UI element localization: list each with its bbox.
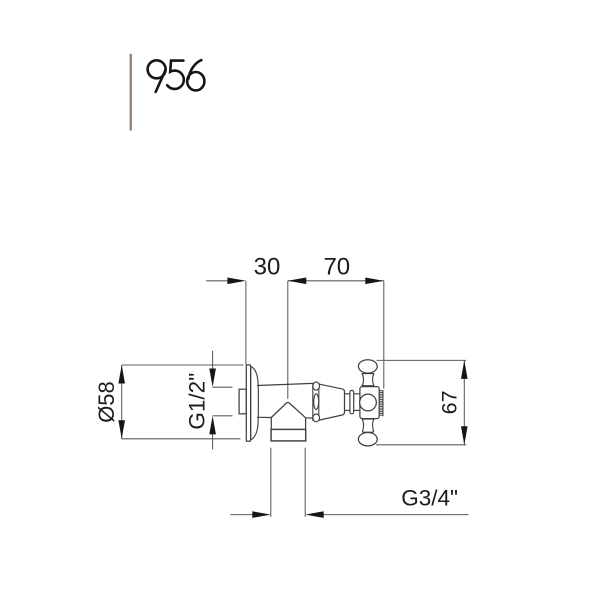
dim 70 extension line right	[383, 281, 385, 389]
neck 1	[345, 393, 350, 395]
ring bottom oval	[313, 414, 320, 422]
svg-text:70: 70	[323, 253, 350, 280]
body tube bottom edge left	[257, 416, 271, 418]
dim 67 extension lines	[377, 359, 467, 361]
handle bottom ball	[358, 433, 377, 446]
collar ring	[350, 390, 354, 414]
ring top oval	[313, 382, 320, 390]
angled transition roof	[271, 402, 305, 417]
body tube top edge	[257, 383, 313, 385]
handle front ball	[360, 394, 377, 411]
outlet spout sides	[270, 418, 272, 430]
svg-text:G1/2": G1/2"	[185, 373, 210, 430]
dim G3/4 left arrow	[230, 514, 253, 516]
dim 30 extension line left	[245, 281, 247, 365]
tapered cone	[319, 384, 344, 420]
wall flange bell	[251, 366, 259, 440]
body tube bottom edge right	[306, 417, 313, 419]
ring middle oval	[314, 394, 319, 410]
dim G3/4 extension lines	[270, 448, 272, 517]
handle bottom neck	[362, 419, 375, 432]
dim O58 line	[121, 365, 123, 439]
dim O58 extension lines	[122, 364, 244, 366]
dim G3/4 right arrow	[323, 514, 468, 516]
handle top neck	[361, 374, 374, 386]
neck 2	[354, 393, 360, 395]
ring band	[312, 383, 314, 421]
dim G1/2 extension lines	[213, 386, 233, 388]
dim 67 line	[463, 360, 465, 444]
logo vertical bar	[130, 54, 132, 131]
outlet nut G3/4	[271, 429, 306, 441]
wall flange plate	[246, 365, 250, 441]
inlet nipple G1/2	[239, 389, 246, 414]
handle hub	[360, 387, 379, 419]
dim G1/2 top arrow	[212, 351, 214, 369]
dim G1/2 bottom arrow	[212, 434, 214, 449]
svg-text:Ø58: Ø58	[94, 381, 119, 423]
svg-text:G3/4": G3/4"	[401, 485, 458, 510]
logo text 956	[148, 60, 205, 92]
dim 30/70 extension line spout axis	[287, 281, 289, 399]
knurled screw	[379, 391, 383, 416]
dim 30 left arrow	[206, 280, 228, 282]
svg-text:67: 67	[438, 390, 462, 414]
handle top ball	[358, 360, 377, 373]
svg-text:30: 30	[254, 253, 281, 280]
dim 70 line	[288, 280, 384, 282]
